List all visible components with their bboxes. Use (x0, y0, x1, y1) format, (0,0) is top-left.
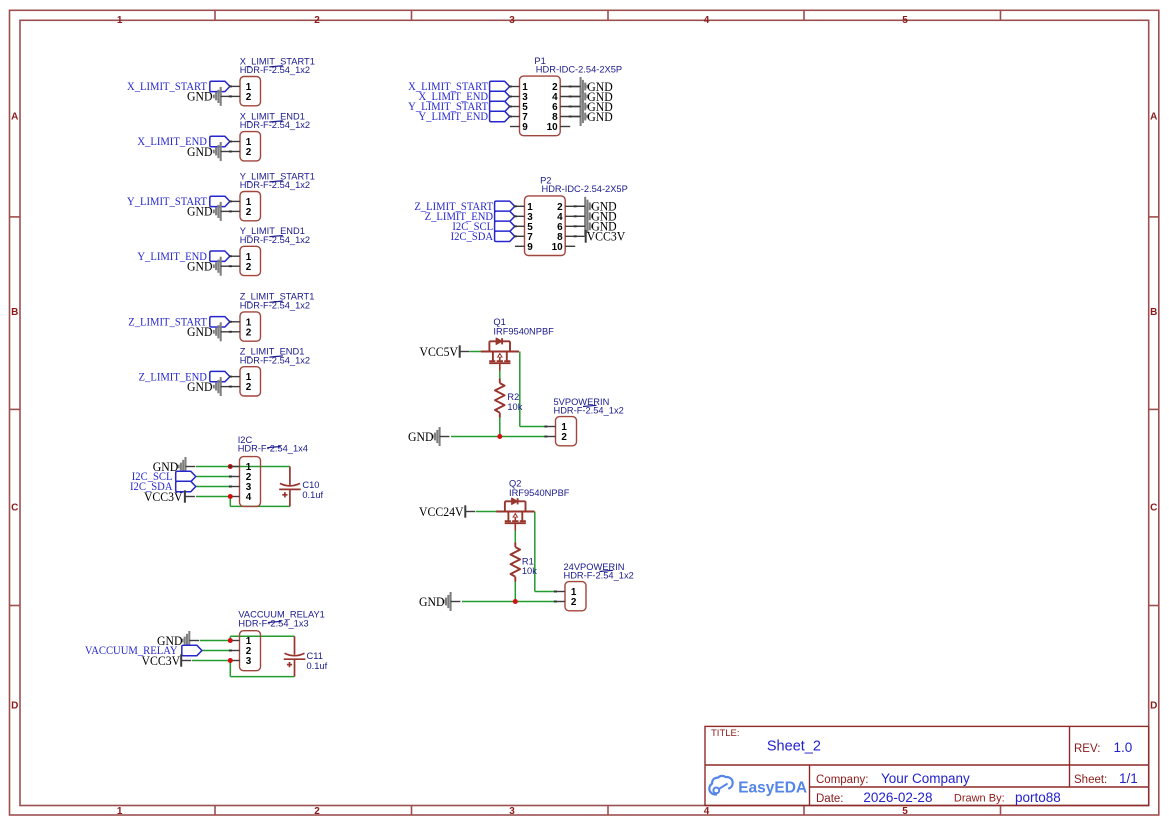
svg-text:10k: 10k (507, 402, 522, 412)
ground GND I2C pin1 (153, 457, 195, 476)
pin1 wire tick (229, 85, 232, 87)
ground GND pin4 (575, 207, 616, 226)
connector Z_LIMIT_START1 (HDR-F-2.54_1x2) (230, 312, 260, 341)
label P1 (534, 56, 622, 74)
svg-text:2: 2 (246, 382, 252, 393)
pin1 wire tick (229, 376, 232, 378)
power flag VCC3V I2C pin4 (144, 489, 195, 504)
svg-text:C11: C11 (307, 651, 323, 661)
svg-text:4: 4 (704, 806, 710, 817)
svg-text:VCC5V: VCC5V (419, 344, 458, 359)
title block Date row (816, 790, 1061, 805)
wire relay GND to pin1 (200, 640, 231, 642)
ground GND pin2 (575, 197, 616, 216)
wire VCC3V to I2C pin4 (196, 496, 230, 498)
pin1 wire tick (509, 86, 512, 88)
wire I2C pin1 GND to C10 top (196, 466, 290, 469)
svg-text:2: 2 (246, 207, 252, 218)
svg-text:VCC3V: VCC3V (587, 229, 626, 244)
svg-text:2: 2 (571, 597, 577, 608)
svg-text:C: C (1150, 503, 1157, 514)
pin1 wire tick (514, 205, 517, 207)
pin1 wire tick (229, 321, 232, 323)
pin4 wire tick (569, 96, 572, 98)
svg-text:HDR-IDC-2.54-2X5P: HDR-IDC-2.54-2X5P (536, 64, 622, 74)
wire I2C pin4 to C10 bottom (230, 497, 290, 507)
svg-text:HDR-IDC-2.54-2X5P: HDR-IDC-2.54-2X5P (542, 184, 628, 194)
node I2C pin1 / C10 branch (228, 464, 233, 469)
wire I2C_SCL to pin2 (196, 476, 231, 478)
5VPOWERIN pin wire ticks (544, 426, 547, 438)
capacitor C10 0.1uf (279, 467, 301, 507)
svg-text:HDR-F-2.54_1x2: HDR-F-2.54_1x2 (554, 405, 624, 415)
pin2 wire tick (229, 210, 232, 212)
wire R2 to GND rail node (499, 417, 501, 436)
svg-text:9: 9 (527, 242, 533, 253)
connector X_LIMIT_START1 (HDR-F-2.54_1x2) (230, 77, 260, 106)
net flag Y_LIMIT_END (418, 111, 509, 123)
node I2C pin4 / C10 branch (228, 494, 233, 499)
wire R1 to GND rail node (514, 582, 516, 602)
svg-text:Your Company: Your Company (881, 771, 970, 786)
label Z_LIMIT_END1 (240, 347, 310, 366)
svg-text:2: 2 (246, 92, 252, 103)
pin7 wire tick (509, 116, 512, 118)
svg-text:HDR-F-2.54_1x4: HDR-F-2.54_1x4 (238, 444, 308, 454)
bottom ruler ticks (215, 806, 1001, 816)
pin2 wire tick (229, 386, 232, 388)
connector VACCUUM_RELAY1 (HDR-F-2.54_1x3) (230, 631, 260, 671)
pin2 wire tick (229, 95, 232, 97)
label I2C (238, 435, 308, 453)
pin8 wire tick (574, 235, 577, 237)
svg-text:2: 2 (314, 15, 320, 26)
svg-text:10k: 10k (522, 566, 537, 576)
connector Y_LIMIT_START1 (HDR-F-2.54_1x2) (230, 192, 260, 221)
pin1 wire tick (229, 255, 232, 257)
top ruler ticks (215, 10, 1001, 20)
svg-text:1.0: 1.0 (1114, 740, 1133, 755)
net flag I2C_SDA (451, 231, 515, 243)
wire Q1 gate to R2 (499, 370, 501, 378)
ground GND pin6 (571, 97, 613, 116)
svg-text:1: 1 (117, 15, 123, 26)
svg-text:REV:: REV: (1074, 743, 1100, 755)
left ruler letters (11, 111, 18, 711)
label Y_LIMIT_START1 (240, 171, 315, 190)
right ruler ticks (1149, 217, 1159, 606)
label C10 (302, 480, 323, 500)
node relay pin1 / C11 branch (228, 638, 233, 643)
resistor R1 10k (511, 543, 521, 582)
power flag VCC5V (419, 344, 469, 359)
title block REV (1074, 740, 1132, 755)
svg-text:4: 4 (246, 492, 252, 503)
net flag X_LIMIT_END (137, 136, 230, 148)
wire Q2 gate to R1 (514, 530, 516, 542)
wire VCC3V to relay pin3 (192, 660, 230, 662)
svg-text:GND: GND (408, 429, 434, 444)
svg-text:B: B (1150, 307, 1157, 318)
ground GND pin4 (571, 87, 613, 106)
power flag VCC3V relay pin3 (142, 653, 192, 668)
svg-text:GND: GND (187, 144, 213, 159)
svg-text:4: 4 (704, 15, 710, 26)
svg-text:R2: R2 (507, 392, 519, 402)
svg-text:VCC3V: VCC3V (144, 489, 183, 504)
wire I2C_SDA to pin3 (196, 486, 231, 488)
svg-text:Sheet_2: Sheet_2 (767, 739, 821, 755)
svg-text:2: 2 (246, 327, 252, 338)
wire relay pin3 to C11 bottom (230, 661, 294, 677)
pin1 tick (229, 466, 232, 468)
net flag X_LIMIT_END (418, 91, 509, 103)
right ruler letters (1150, 111, 1157, 711)
svg-text:Date:: Date: (816, 793, 844, 805)
label Y_LIMIT_END1 (240, 226, 310, 245)
wire VCC5V to Q1 source (470, 351, 481, 353)
ground GND (187, 257, 230, 276)
svg-text:1: 1 (117, 806, 123, 817)
label X_LIMIT_START1 (240, 56, 315, 75)
svg-text:VCC3V: VCC3V (142, 653, 181, 668)
svg-text:GND: GND (587, 109, 613, 124)
transistor Q1 (IRF9540NPBF p-mosfet) (481, 338, 519, 370)
wire GND rail 5V section (451, 436, 546, 438)
label 5VPOWERIN (554, 397, 624, 415)
svg-text:R1: R1 (522, 556, 534, 566)
net flag Y_LIMIT_START (408, 101, 510, 113)
svg-text:10: 10 (552, 242, 563, 253)
label R2 (507, 392, 522, 412)
svg-text:3: 3 (246, 656, 252, 667)
pin2 wire tick (229, 265, 232, 267)
svg-text:5: 5 (902, 806, 908, 817)
pin1 wire tick (229, 141, 232, 143)
net flag VACCUUM_RELAY (85, 645, 202, 657)
svg-text:2: 2 (561, 432, 567, 443)
label VACCUUM_RELAY1 (238, 610, 324, 629)
left ruler ticks (10, 217, 21, 606)
svg-text:GND: GND (419, 594, 445, 609)
pin4 wire tick (574, 215, 577, 217)
svg-text:3: 3 (509, 15, 515, 26)
net flag Y_LIMIT_END (137, 251, 230, 263)
svg-text:Company:: Company: (816, 774, 868, 786)
svg-text:C: C (11, 503, 18, 514)
wire Q2 drain to 24VPOWERIN pin1 (535, 512, 556, 592)
svg-text:0.1uf: 0.1uf (307, 661, 328, 671)
svg-text:A: A (1150, 111, 1157, 122)
pin6 wire tick (574, 225, 577, 227)
ground GND pin2 (571, 77, 613, 96)
24VPOWERIN pin wire ticks (554, 591, 557, 603)
svg-text:Sheet:: Sheet: (1074, 774, 1107, 786)
label X_LIMIT_END1 (240, 111, 310, 130)
svg-text:HDR-F-2.54_1x3: HDR-F-2.54_1x3 (238, 618, 308, 628)
svg-text:VCC24V: VCC24V (419, 504, 464, 519)
ground GND pin6 (575, 217, 616, 236)
svg-text:Drawn By:: Drawn By: (954, 793, 1005, 805)
connector 24VPOWERIN (HDR-F-2.54_1x2) (555, 582, 586, 611)
wire VCC24V to Q2 source (476, 511, 497, 513)
ground GND (187, 202, 230, 221)
net flag X_LIMIT_START (127, 81, 230, 93)
svg-text:1/1: 1/1 (1119, 771, 1138, 786)
wire VACCUUM_RELAY to pin2 (202, 650, 231, 652)
svg-text:porto88: porto88 (1015, 790, 1061, 805)
pin5 wire tick (509, 106, 512, 108)
pin2 wire tick (574, 205, 577, 207)
svg-text:GND: GND (187, 379, 213, 394)
net flag Z_LIMIT_END (139, 371, 230, 383)
svg-text:2026-02-28: 2026-02-28 (863, 790, 932, 805)
pin2 wire tick (569, 86, 572, 88)
wire relay pin1 to C11 top (230, 636, 294, 640)
svg-text:GND: GND (187, 204, 213, 219)
capacitor C11 0.1uf (284, 636, 306, 676)
net flag I2C_SCL (132, 471, 196, 483)
pin2 wire tick (229, 151, 232, 153)
svg-text:D: D (1150, 701, 1157, 712)
connector Y_LIMIT_END1 (HDR-F-2.54_1x2) (230, 246, 260, 275)
label Z_LIMIT_START1 (240, 292, 315, 311)
pin2 wire tick (229, 331, 232, 333)
svg-text:IRF9540NPBF: IRF9540NPBF (509, 488, 570, 498)
ground GND (187, 142, 230, 161)
pin1 wire tick (229, 200, 232, 202)
svg-text:D: D (11, 701, 18, 712)
svg-text:Y_LIMIT_END: Y_LIMIT_END (418, 111, 488, 123)
svg-text:C10: C10 (302, 480, 319, 490)
svg-text:GND: GND (187, 325, 213, 340)
net flag Z_LIMIT_START (414, 201, 514, 213)
svg-text:B: B (11, 307, 18, 318)
junction node R2/GND rail (497, 434, 502, 439)
svg-text:2: 2 (314, 806, 320, 817)
net flag I2C_SDA (130, 481, 196, 493)
pin7 wire tick (514, 235, 517, 237)
junction node R1/GND rail (513, 599, 518, 604)
connector Z_LIMIT_END1 (HDR-F-2.54_1x2) (230, 367, 260, 396)
wire Q1 drain to 5VPOWERIN pin1 (520, 352, 546, 427)
transistor Q2 (IRF9540NPBF p-mosfet) (496, 498, 534, 530)
svg-text:3: 3 (509, 806, 515, 817)
connector P1 (HDR-IDC-2.54-2X5P) (510, 76, 580, 136)
ground GND (187, 322, 230, 341)
power VCC3V pin8 (586, 229, 626, 244)
pin8 wire tick (569, 116, 572, 118)
pin3 tick (229, 486, 232, 488)
pin3 wire tick (509, 96, 512, 98)
svg-text:0.1uf: 0.1uf (302, 490, 323, 500)
svg-text:A: A (11, 111, 18, 122)
pin2 tick (229, 650, 232, 652)
svg-text:EasyEDA: EasyEDA (738, 779, 807, 796)
pin3 wire tick (514, 215, 517, 217)
svg-text:5: 5 (902, 15, 908, 26)
svg-text:10: 10 (547, 122, 558, 133)
ground GND pin8 (571, 107, 613, 126)
svg-text:I2C_SDA: I2C_SDA (451, 231, 494, 243)
ground GND 5V rail (408, 427, 449, 446)
label C11 (307, 651, 328, 671)
svg-text:2: 2 (246, 262, 252, 273)
title block TITLE (711, 728, 821, 755)
net flag I2C_SCL (452, 221, 514, 233)
svg-text:9: 9 (522, 122, 528, 133)
label 24VPOWERIN (564, 562, 634, 580)
label Q2 (509, 479, 570, 498)
svg-text:TITLE:: TITLE: (711, 728, 740, 739)
label R1 (522, 556, 537, 576)
pin5 wire tick (514, 225, 517, 227)
bottom ruler numbers (117, 806, 908, 817)
EasyEDA logo (709, 776, 807, 797)
title block border (705, 726, 1149, 805)
power flag VCC24V (419, 504, 475, 519)
pin6 wire tick (569, 106, 572, 108)
svg-text:IRF9540NPBF: IRF9540NPBF (493, 327, 554, 337)
ground GND relay pin1 (157, 631, 199, 650)
svg-text:HDR-F-2.54_1x2: HDR-F-2.54_1x2 (564, 570, 634, 580)
net flag X_LIMIT_START (408, 81, 510, 93)
label Q1 (493, 317, 554, 336)
pin2 tick (229, 476, 232, 478)
resistor R2 10k (495, 379, 505, 418)
wire GND rail 24V section (462, 601, 555, 603)
connector P2 (HDR-IDC-2.54-2X5P) (515, 196, 585, 256)
net flag Z_LIMIT_START (128, 316, 230, 328)
ground GND (187, 87, 230, 106)
ground GND 24V rail (419, 592, 460, 611)
svg-text:GND: GND (187, 259, 213, 274)
top ruler numbers (117, 15, 908, 26)
label P2 (540, 176, 628, 194)
title block Company (816, 771, 970, 786)
net flag Y_LIMIT_START (127, 196, 230, 208)
svg-text:GND: GND (187, 89, 213, 104)
connector X_LIMIT_END1 (HDR-F-2.54_1x2) (230, 132, 260, 161)
connector I2C (HDR-F-2.54_1x4) (230, 457, 260, 507)
net flag Z_LIMIT_END (425, 211, 515, 223)
connector 5VPOWERIN (HDR-F-2.54_1x2) (546, 417, 577, 446)
title block Sheet (1074, 771, 1138, 786)
svg-text:2: 2 (246, 147, 252, 158)
node relay pin3 / C11 branch (228, 658, 233, 663)
ground GND (187, 377, 230, 396)
